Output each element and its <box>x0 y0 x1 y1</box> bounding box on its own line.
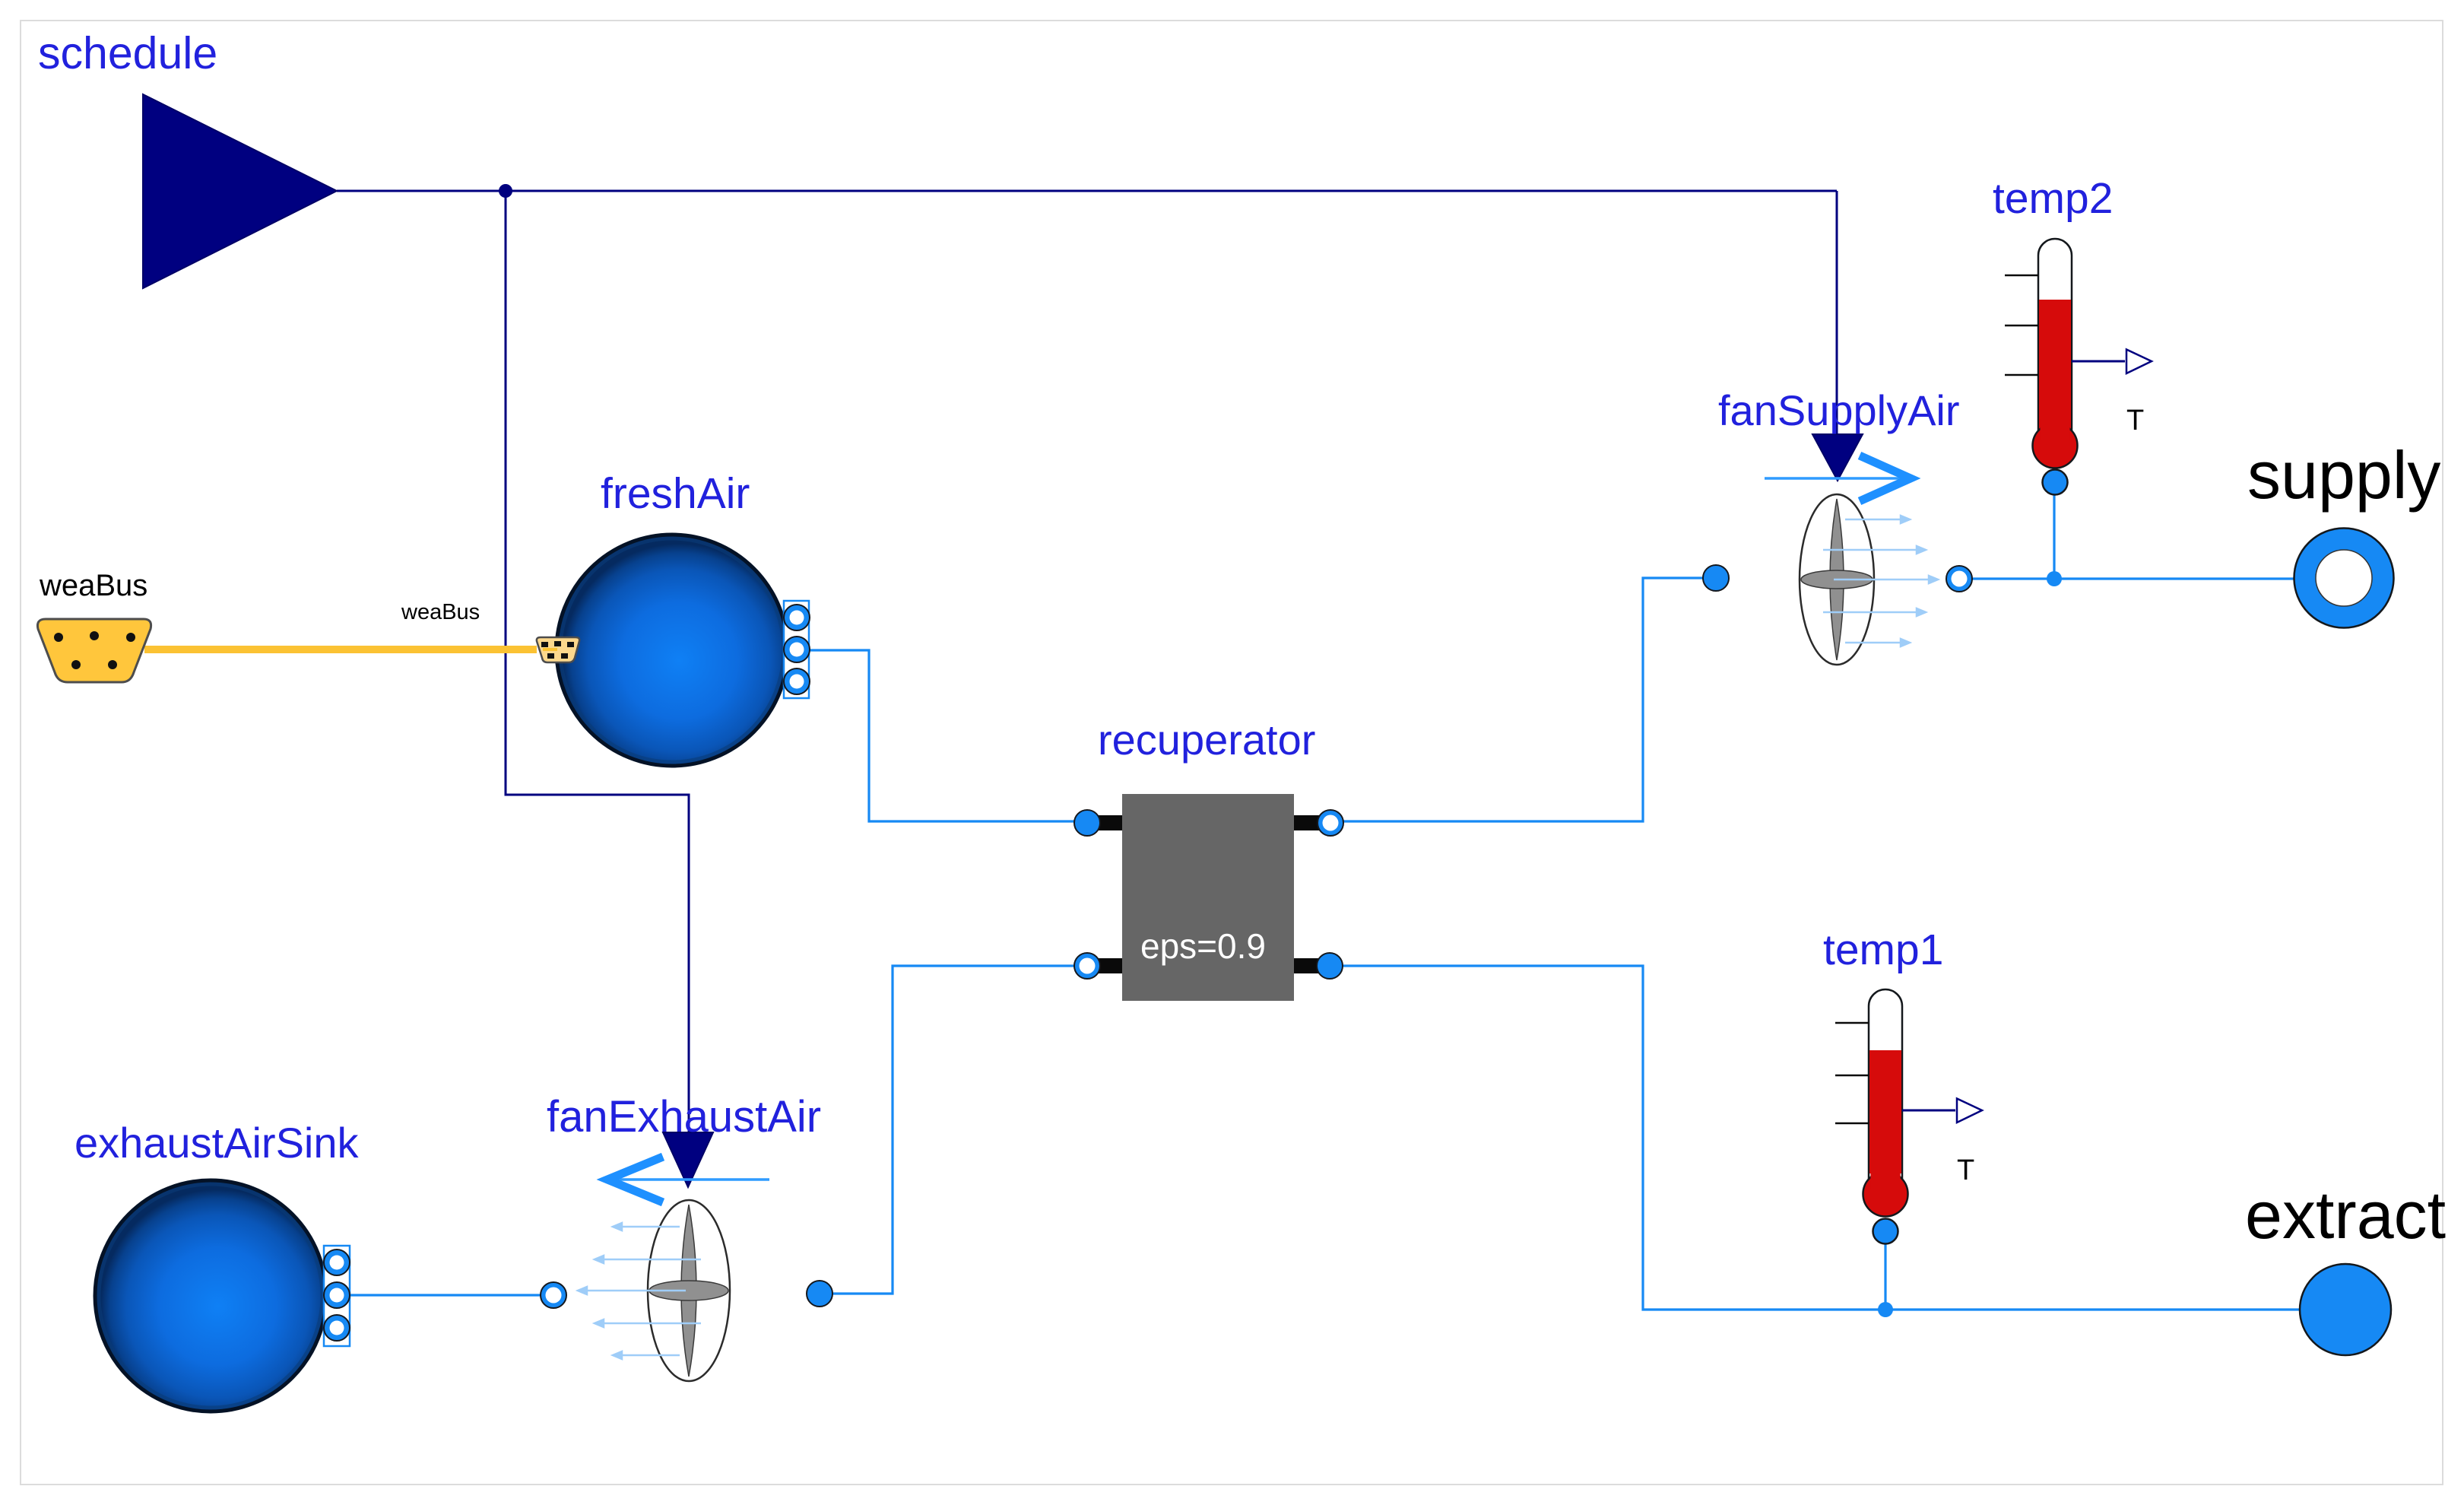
svg-text:fanExhaustAir: fanExhaustAir <box>547 1092 821 1142</box>
svg-text:exhaustAirSink: exhaustAirSink <box>75 1119 360 1167</box>
svg-text:fanSupplyAir: fanSupplyAir <box>1718 386 1960 434</box>
svg-text:supply: supply <box>2247 437 2440 513</box>
svg-text:temp2: temp2 <box>1993 174 2113 223</box>
svg-text:recuperator: recuperator <box>1098 716 1315 764</box>
svg-text:temp1: temp1 <box>1823 926 1943 974</box>
svg-text:schedule: schedule <box>38 28 217 78</box>
svg-text:T: T <box>1957 1154 1974 1186</box>
svg-text:weaBus: weaBus <box>39 569 147 602</box>
svg-text:weaBus: weaBus <box>401 600 480 624</box>
svg-text:extract: extract <box>2245 1177 2446 1253</box>
svg-text:T: T <box>2126 405 2144 437</box>
svg-text:freshAir: freshAir <box>601 469 750 518</box>
svg-text:eps=0.9: eps=0.9 <box>1140 926 1266 966</box>
